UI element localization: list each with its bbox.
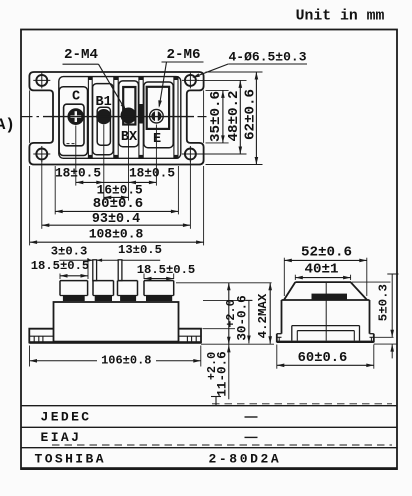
svg-text:80±0.6: 80±0.6 [93,196,143,212]
svg-text:18.5±0.5: 18.5±0.5 [31,259,90,273]
svg-text:40±1: 40±1 [304,261,338,277]
svg-text:JEDEC: JEDEC [41,410,92,425]
svg-text:TOSHIBA: TOSHIBA [35,451,106,466]
svg-text:106±0.8: 106±0.8 [101,353,151,367]
svg-text:2-80D2A: 2-80D2A [209,451,282,466]
svg-text:2-M4: 2-M4 [64,47,99,63]
svg-text:BX: BX [121,130,138,145]
svg-text:18±0.5: 18±0.5 [129,166,175,181]
svg-text:4.2MAX: 4.2MAX [256,293,270,338]
svg-text:2-M6: 2-M6 [166,47,200,63]
svg-text:C: C [72,89,80,104]
svg-text:13±0.5: 13±0.5 [118,243,162,257]
svg-text:4-Ø6.5±0.3: 4-Ø6.5±0.3 [228,49,306,64]
svg-text:108±0.8: 108±0.8 [89,226,144,241]
svg-text:93±0.4: 93±0.4 [92,212,140,227]
svg-text:62±0.6: 62±0.6 [243,89,259,140]
svg-text:48±0.2: 48±0.2 [226,90,242,141]
svg-text:30-0.6: 30-0.6 [235,295,249,340]
svg-text:B1: B1 [95,95,111,110]
svg-text:52±0.6: 52±0.6 [301,245,352,261]
svg-text:Unit in mm: Unit in mm [296,8,385,24]
svg-text:18±0.5: 18±0.5 [55,166,101,181]
svg-text:35±0.6: 35±0.6 [208,91,224,142]
svg-text:(A): (A) [0,116,15,134]
svg-text:18.5±0.5: 18.5±0.5 [137,263,196,277]
svg-text:E: E [153,132,161,147]
svg-text:3±0.3: 3±0.3 [51,244,88,258]
svg-text:11-0.6: 11-0.6 [216,351,230,396]
svg-text:5±0.3: 5±0.3 [376,284,390,321]
svg-text:60±0.6: 60±0.6 [298,351,348,366]
svg-text:EIAJ: EIAJ [41,430,82,445]
